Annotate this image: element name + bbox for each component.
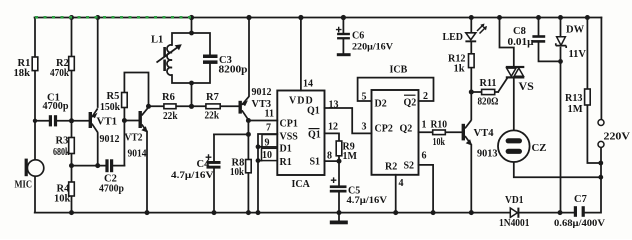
labels right section (431, 25, 631, 230)
ground bar below C5 (330, 221, 348, 225)
wire R5 top loop to VT2 collector (124, 73, 148, 107)
wire C5 column (338, 161, 340, 213)
wire triac gate diagonal (498, 79, 507, 92)
svg-text:VT1: VT1 (97, 117, 118, 128)
svg-text:ICB: ICB (390, 65, 408, 76)
wire VT1 collector (97, 133, 99, 166)
junction dots bottom rail (69, 210, 74, 215)
svg-text:1M: 1M (568, 104, 583, 115)
svg-text:13: 13 (329, 100, 339, 111)
svg-text:1k: 1k (454, 64, 465, 75)
junction dots mid circuit (33, 119, 37, 123)
wire pin4 down (395, 175, 397, 213)
transistor VT1 (89, 108, 98, 132)
wire ICB D2-Q2bar top bracket (358, 78, 434, 101)
svg-text:4700p: 4700p (43, 101, 69, 112)
capacitor C2 plates (105, 159, 108, 172)
socket CZ (498, 130, 530, 162)
wire bottom rail (35, 212, 574, 214)
svg-text:Q2: Q2 (404, 98, 417, 109)
svg-text:22k: 22k (163, 111, 178, 122)
wire S1 pin8 line (325, 160, 340, 162)
svg-text:470k: 470k (50, 68, 69, 79)
wire R1 pin10 stub (258, 160, 262, 162)
svg-text:VD1: VD1 (505, 195, 524, 206)
svg-text:R6: R6 (162, 92, 175, 103)
triac VS (506, 66, 525, 79)
wire C2 right to VT2 base node (123, 121, 125, 166)
junction dots top rail (33, 15, 603, 215)
transistor VT4 (462, 120, 473, 145)
svg-text:14: 14 (303, 79, 313, 90)
svg-text:4700p: 4700p (99, 184, 124, 195)
capacitor C7 plates (574, 206, 577, 217)
labels IC section (262, 31, 428, 207)
wire DW column (560, 18, 562, 213)
LED (465, 24, 487, 43)
wire CZ bottom to right edge (514, 162, 601, 177)
zener diode DW (556, 37, 566, 48)
wire VT3 emitter to rail (248, 18, 250, 97)
wire Q1 pin13 to CP2 pin3 (325, 108, 372, 133)
wire tank bottom stub (191, 83, 193, 106)
svg-text:S2: S2 (404, 161, 415, 172)
wire R9 bottom to S1 node (338, 156, 340, 161)
capacitor C4 plates (207, 161, 221, 164)
svg-text:11V: 11V (569, 49, 587, 60)
wire VT3 collector / R8 column (247, 121, 249, 213)
svg-text:10k: 10k (54, 194, 71, 205)
svg-text:0.68μ/400V: 0.68μ/400V (554, 218, 605, 229)
svg-text:9012: 9012 (100, 134, 120, 145)
wire LED R12 VT4 collector column (470, 18, 472, 120)
IC box ICB (372, 90, 419, 175)
transistor VT3 (239, 96, 250, 120)
svg-text:2: 2 (423, 91, 428, 102)
resistor R3 (69, 138, 75, 154)
svg-text:R10: R10 (431, 120, 448, 131)
svg-text:680k: 680k (53, 147, 70, 158)
svg-text:820Ω: 820Ω (478, 97, 499, 108)
svg-text:12: 12 (328, 122, 338, 133)
wire CP1 pin11 line (248, 120, 277, 122)
wire ICA VDD pin14 (300, 18, 302, 91)
wire R7 line (192, 105, 239, 107)
wire VT4 emitter down (470, 145, 472, 213)
wire C6 column (342, 18, 344, 54)
svg-text:10k: 10k (433, 137, 446, 148)
svg-text:CP1: CP1 (280, 119, 298, 130)
wire top rail (35, 17, 602, 19)
svg-text:220μ/16V: 220μ/16V (352, 43, 393, 53)
capacitor C1 plates (49, 33, 585, 225)
watermark green dashes on top rail (35, 16, 192, 19)
svg-text:ICA: ICA (292, 179, 311, 190)
wire VSS pin7 line and ground column (258, 134, 277, 213)
wire C4 vertical (213, 134, 215, 212)
wire VT1 emitter to rail (97, 18, 99, 108)
svg-text:R3: R3 (56, 136, 69, 147)
polarity plus signs (206, 27, 342, 183)
capacitor C8 plates (532, 35, 545, 38)
svg-text:S1: S1 (310, 157, 321, 168)
svg-text:VT2: VT2 (125, 133, 143, 144)
diode VD1 (510, 208, 519, 218)
svg-text:11: 11 (265, 109, 274, 120)
MIC microphone (25, 159, 44, 177)
svg-text:9: 9 (265, 138, 270, 149)
svg-text:R13: R13 (565, 93, 583, 104)
resistor R4 (69, 182, 75, 196)
wire VS bottom to CZ (513, 78, 515, 130)
svg-text:DW: DW (566, 25, 585, 36)
wire right edge down to 220V top terminal (600, 18, 602, 120)
pin10 box on ICA (262, 148, 278, 160)
wire left column R1/MIC (34, 18, 36, 213)
wire R5 bottom (123, 108, 125, 121)
svg-text:C8: C8 (513, 26, 526, 37)
wire Q2 pin1 to R10 to VT4 base (419, 131, 462, 133)
svg-text:7: 7 (266, 123, 271, 134)
capacitor C6 plates (337, 33, 350, 35)
svg-text:1N4001: 1N4001 (499, 218, 530, 229)
svg-text:R11: R11 (480, 78, 497, 89)
svg-text:8200p: 8200p (219, 65, 248, 76)
wire C8 column (539, 18, 561, 62)
wire Q1bar pin12 to R9 (325, 133, 340, 141)
svg-text:9014: 9014 (128, 149, 148, 160)
capacitor C3 plates (203, 55, 218, 59)
wire C4 top line (214, 133, 248, 135)
resistor R6 (164, 104, 176, 109)
wire D1 pin9 stub (258, 146, 262, 148)
svg-text:D2: D2 (375, 99, 387, 110)
resistor R1 (32, 57, 38, 71)
resistor R11 (482, 89, 495, 94)
svg-text:4.7μ/16V: 4.7μ/16V (347, 195, 388, 206)
resistor R8 (246, 160, 252, 173)
svg-text:CZ: CZ (532, 143, 547, 154)
wire R13 column (587, 18, 600, 164)
inductor L1 with core (157, 45, 181, 75)
svg-text:CP2: CP2 (375, 124, 393, 135)
resistor R10 (433, 130, 446, 135)
wire R11 line (471, 91, 498, 93)
pin9 box on ICA (262, 135, 277, 147)
svg-text:C7: C7 (574, 194, 587, 205)
svg-text:D1: D1 (280, 144, 292, 155)
svg-text:1M: 1M (343, 151, 358, 162)
svg-text:LED: LED (443, 32, 464, 43)
wire R6 line (149, 105, 192, 107)
resistor R7 (206, 104, 220, 109)
wire 220V bottom terminal down to C7 (585, 148, 601, 213)
svg-text:Q1: Q1 (308, 130, 321, 141)
svg-text:220V: 220V (604, 132, 631, 143)
ground stub below rail at C5 (338, 213, 340, 221)
svg-text:C4: C4 (197, 159, 211, 170)
svg-text:R5: R5 (107, 91, 120, 102)
capacitor C5 plates (330, 185, 347, 188)
wire VT2 base lead (124, 120, 138, 122)
wire C1 coupling line (35, 120, 89, 122)
resistor R12 (469, 54, 475, 68)
resistor R9 (336, 141, 342, 156)
svg-text:10k: 10k (230, 167, 244, 178)
svg-text:L1: L1 (151, 35, 163, 46)
svg-text:R7: R7 (206, 92, 219, 103)
svg-text:9012: 9012 (252, 87, 272, 98)
svg-text:MIC: MIC (15, 180, 33, 191)
wire VT2 emitter down (146, 132, 148, 213)
wire R2 R3 R4 column (71, 18, 73, 213)
svg-text:0.01μ: 0.01μ (508, 37, 534, 48)
wire tank stub to rail (191, 18, 193, 34)
svg-text:C6: C6 (352, 31, 364, 42)
wire S2 pin6 down (419, 165, 434, 213)
svg-text:150k: 150k (100, 102, 120, 113)
resistor R2 (69, 57, 75, 71)
resistor R5 (122, 93, 128, 108)
svg-text:8: 8 (327, 151, 332, 162)
wire rail jog to VS top (500, 18, 514, 67)
svg-text:18k: 18k (14, 68, 31, 79)
svg-text:VSS: VSS (280, 132, 299, 143)
transistor VT2 (139, 107, 149, 132)
220V terminals (598, 120, 604, 126)
svg-text:1: 1 (422, 120, 427, 131)
svg-text:R1: R1 (280, 157, 292, 168)
labels left section (14, 35, 272, 205)
wire VT1 collector line y=165.6 (72, 165, 125, 167)
svg-text:Q2: Q2 (400, 124, 413, 135)
svg-text:22k: 22k (205, 111, 220, 122)
svg-text:6: 6 (422, 151, 427, 162)
svg-text:10: 10 (262, 150, 272, 161)
svg-text:Q1: Q1 (307, 106, 320, 117)
svg-text:3: 3 (362, 122, 367, 133)
resistor R13 (585, 89, 591, 105)
svg-text:4.7μ/16V: 4.7μ/16V (171, 170, 214, 181)
svg-text:R2: R2 (385, 162, 397, 173)
ground bar below C6 (337, 53, 351, 56)
svg-text:VS: VS (519, 79, 535, 93)
svg-text:4: 4 (399, 178, 404, 189)
IC box ICA (277, 91, 324, 176)
wire tank box (172, 33, 210, 83)
svg-text:VT4: VT4 (474, 128, 495, 139)
svg-text:9013: 9013 (477, 149, 498, 160)
svg-text:5: 5 (362, 92, 367, 103)
